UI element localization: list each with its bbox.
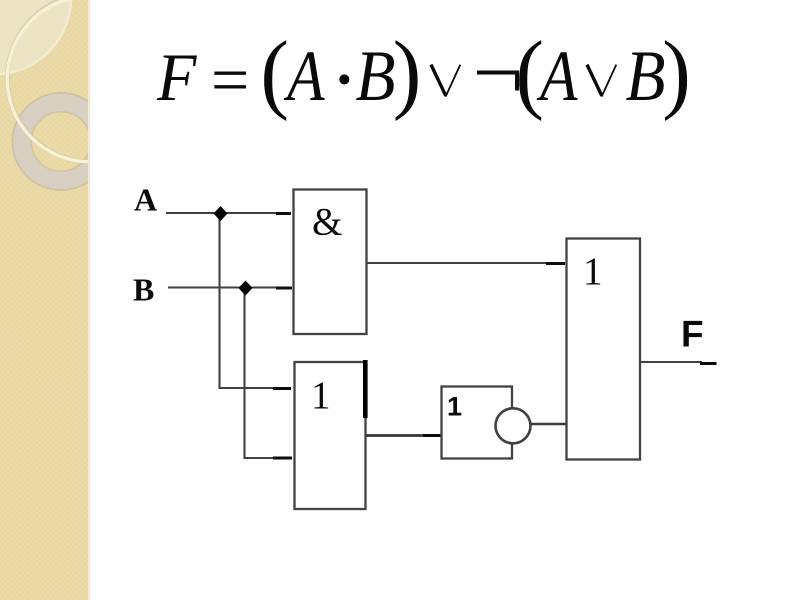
svg-text:1: 1 [583, 250, 603, 293]
svg-text:A: A [537, 36, 579, 116]
svg-text:1: 1 [311, 374, 331, 417]
svg-text:A: A [284, 36, 326, 116]
svg-text:F: F [156, 39, 198, 115]
svg-text:F: F [681, 314, 704, 355]
svg-text:B: B [356, 36, 396, 116]
svg-text:(: ( [260, 23, 289, 122]
svg-text:A: A [134, 182, 157, 218]
svg-text:B: B [133, 272, 154, 308]
svg-text:B: B [626, 36, 666, 116]
svg-text:): ) [393, 23, 422, 122]
svg-text:&: & [312, 201, 342, 244]
svg-text:·: · [334, 46, 355, 114]
svg-text:): ) [662, 23, 691, 122]
svg-text:=: = [211, 42, 249, 118]
svg-text:1: 1 [447, 392, 462, 422]
